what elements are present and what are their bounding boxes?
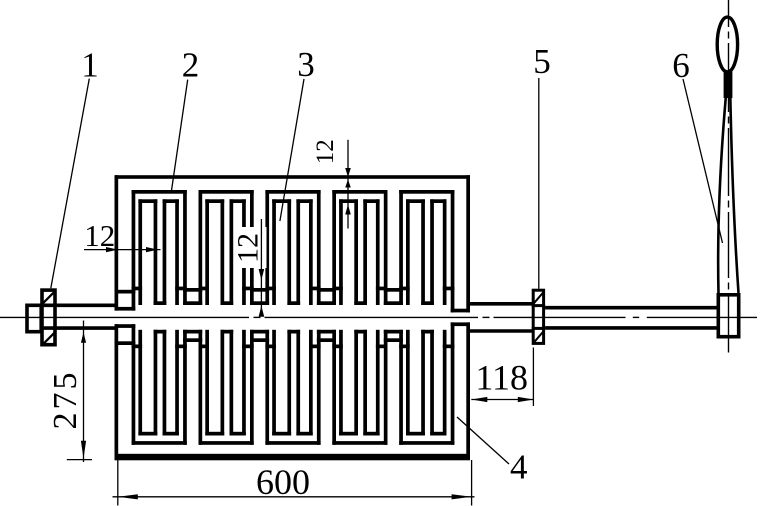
svg-text:4: 4 [510,447,528,486]
svg-text:600: 600 [256,462,310,502]
svg-text:6: 6 [672,46,690,85]
svg-text:12: 12 [84,218,115,253]
svg-text:12: 12 [312,139,339,164]
svg-text:5: 5 [533,42,551,81]
svg-text:118: 118 [475,358,528,398]
svg-text:275: 275 [47,370,84,430]
svg-text:12: 12 [232,233,265,263]
svg-text:3: 3 [297,45,315,84]
svg-text:1: 1 [81,46,99,85]
svg-text:2: 2 [182,46,200,85]
